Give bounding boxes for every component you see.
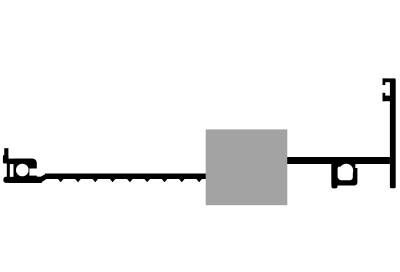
- teeth: [58, 179, 202, 182]
- left boss screw hole: [16, 164, 29, 177]
- main toothed bar: [45, 174, 207, 180]
- right hook: bottom arm: [383, 96, 391, 102]
- left boss opening slot (right): [29, 169, 39, 176]
- right boss screw hole: [339, 164, 353, 178]
- right hook: top lip: [383, 78, 386, 85]
- left screw boss outer: [13, 159, 36, 183]
- right boss slot (white): [338, 167, 343, 179]
- right boss left leg: [331, 164, 337, 188]
- right boss top-right notch: [355, 164, 359, 168]
- right horizontal bar: [287, 157, 390, 164]
- left bottom flange fill: [8, 177, 42, 183]
- left mid arm: [9, 159, 34, 165]
- left boss slot (inner white, left): [10, 164, 14, 177]
- gray insulation block: [206, 129, 288, 205]
- step between flange and toothed bar: [41, 174, 47, 183]
- left hook: vertical stub: [4, 148, 8, 163]
- left bottom flange: [3, 177, 42, 183]
- right screw boss body: [331, 164, 357, 186]
- left hook: lower neck: [7, 163, 10, 179]
- right hook: top arm: [383, 78, 391, 82]
- right hook: bottom lip: [383, 93, 386, 101]
- right vertical bar: [390, 78, 396, 188]
- right boss lower pocket (white): [338, 170, 353, 181]
- left hook: foot protrusion: [3, 155, 8, 164]
